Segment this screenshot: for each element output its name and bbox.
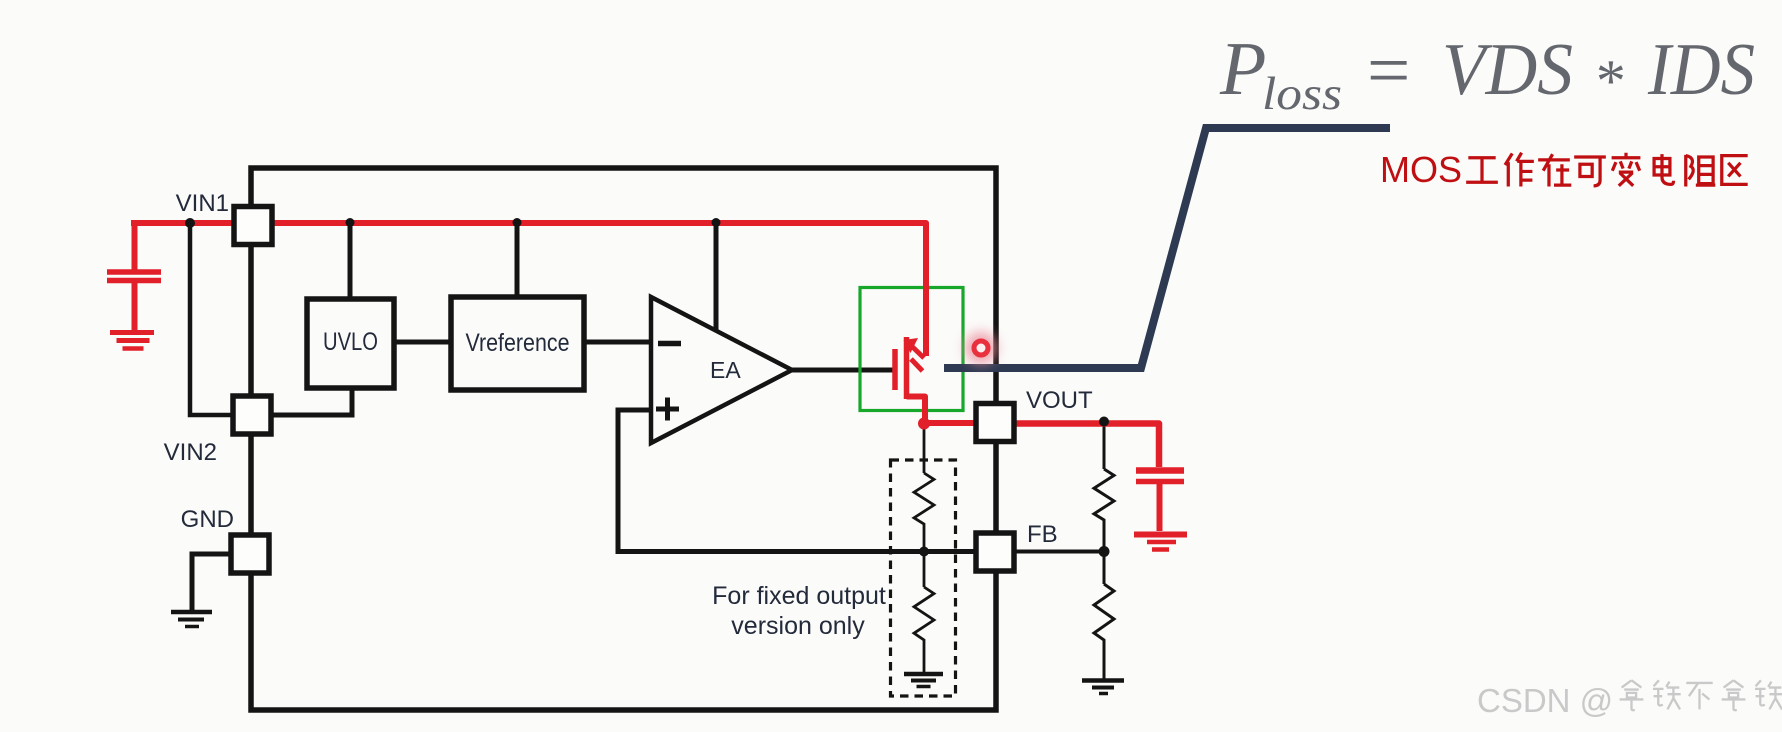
svg-text:VDS: VDS — [1442, 29, 1573, 111]
svg-text:version only: version only — [731, 612, 865, 640]
svg-text:CSDN @: CSDN @ — [1477, 682, 1613, 719]
svg-text:VIN1: VIN1 — [176, 190, 229, 217]
svg-text:EA: EA — [710, 357, 741, 383]
svg-text:=: = — [1362, 30, 1414, 112]
svg-text:MOS: MOS — [1380, 149, 1462, 190]
svg-text:For fixed output: For fixed output — [712, 582, 886, 610]
svg-text:UVLO: UVLO — [323, 328, 378, 356]
svg-text:FB: FB — [1027, 521, 1058, 548]
svg-text:VIN2: VIN2 — [164, 439, 217, 466]
svg-text:VOUT: VOUT — [1026, 387, 1093, 414]
svg-text:IDS: IDS — [1647, 29, 1755, 111]
svg-text:Vreference: Vreference — [466, 329, 570, 357]
svg-text:*: * — [1593, 48, 1623, 114]
svg-text:loss: loss — [1262, 68, 1342, 120]
svg-text:GND: GND — [181, 506, 234, 533]
svg-text:P: P — [1219, 27, 1266, 111]
